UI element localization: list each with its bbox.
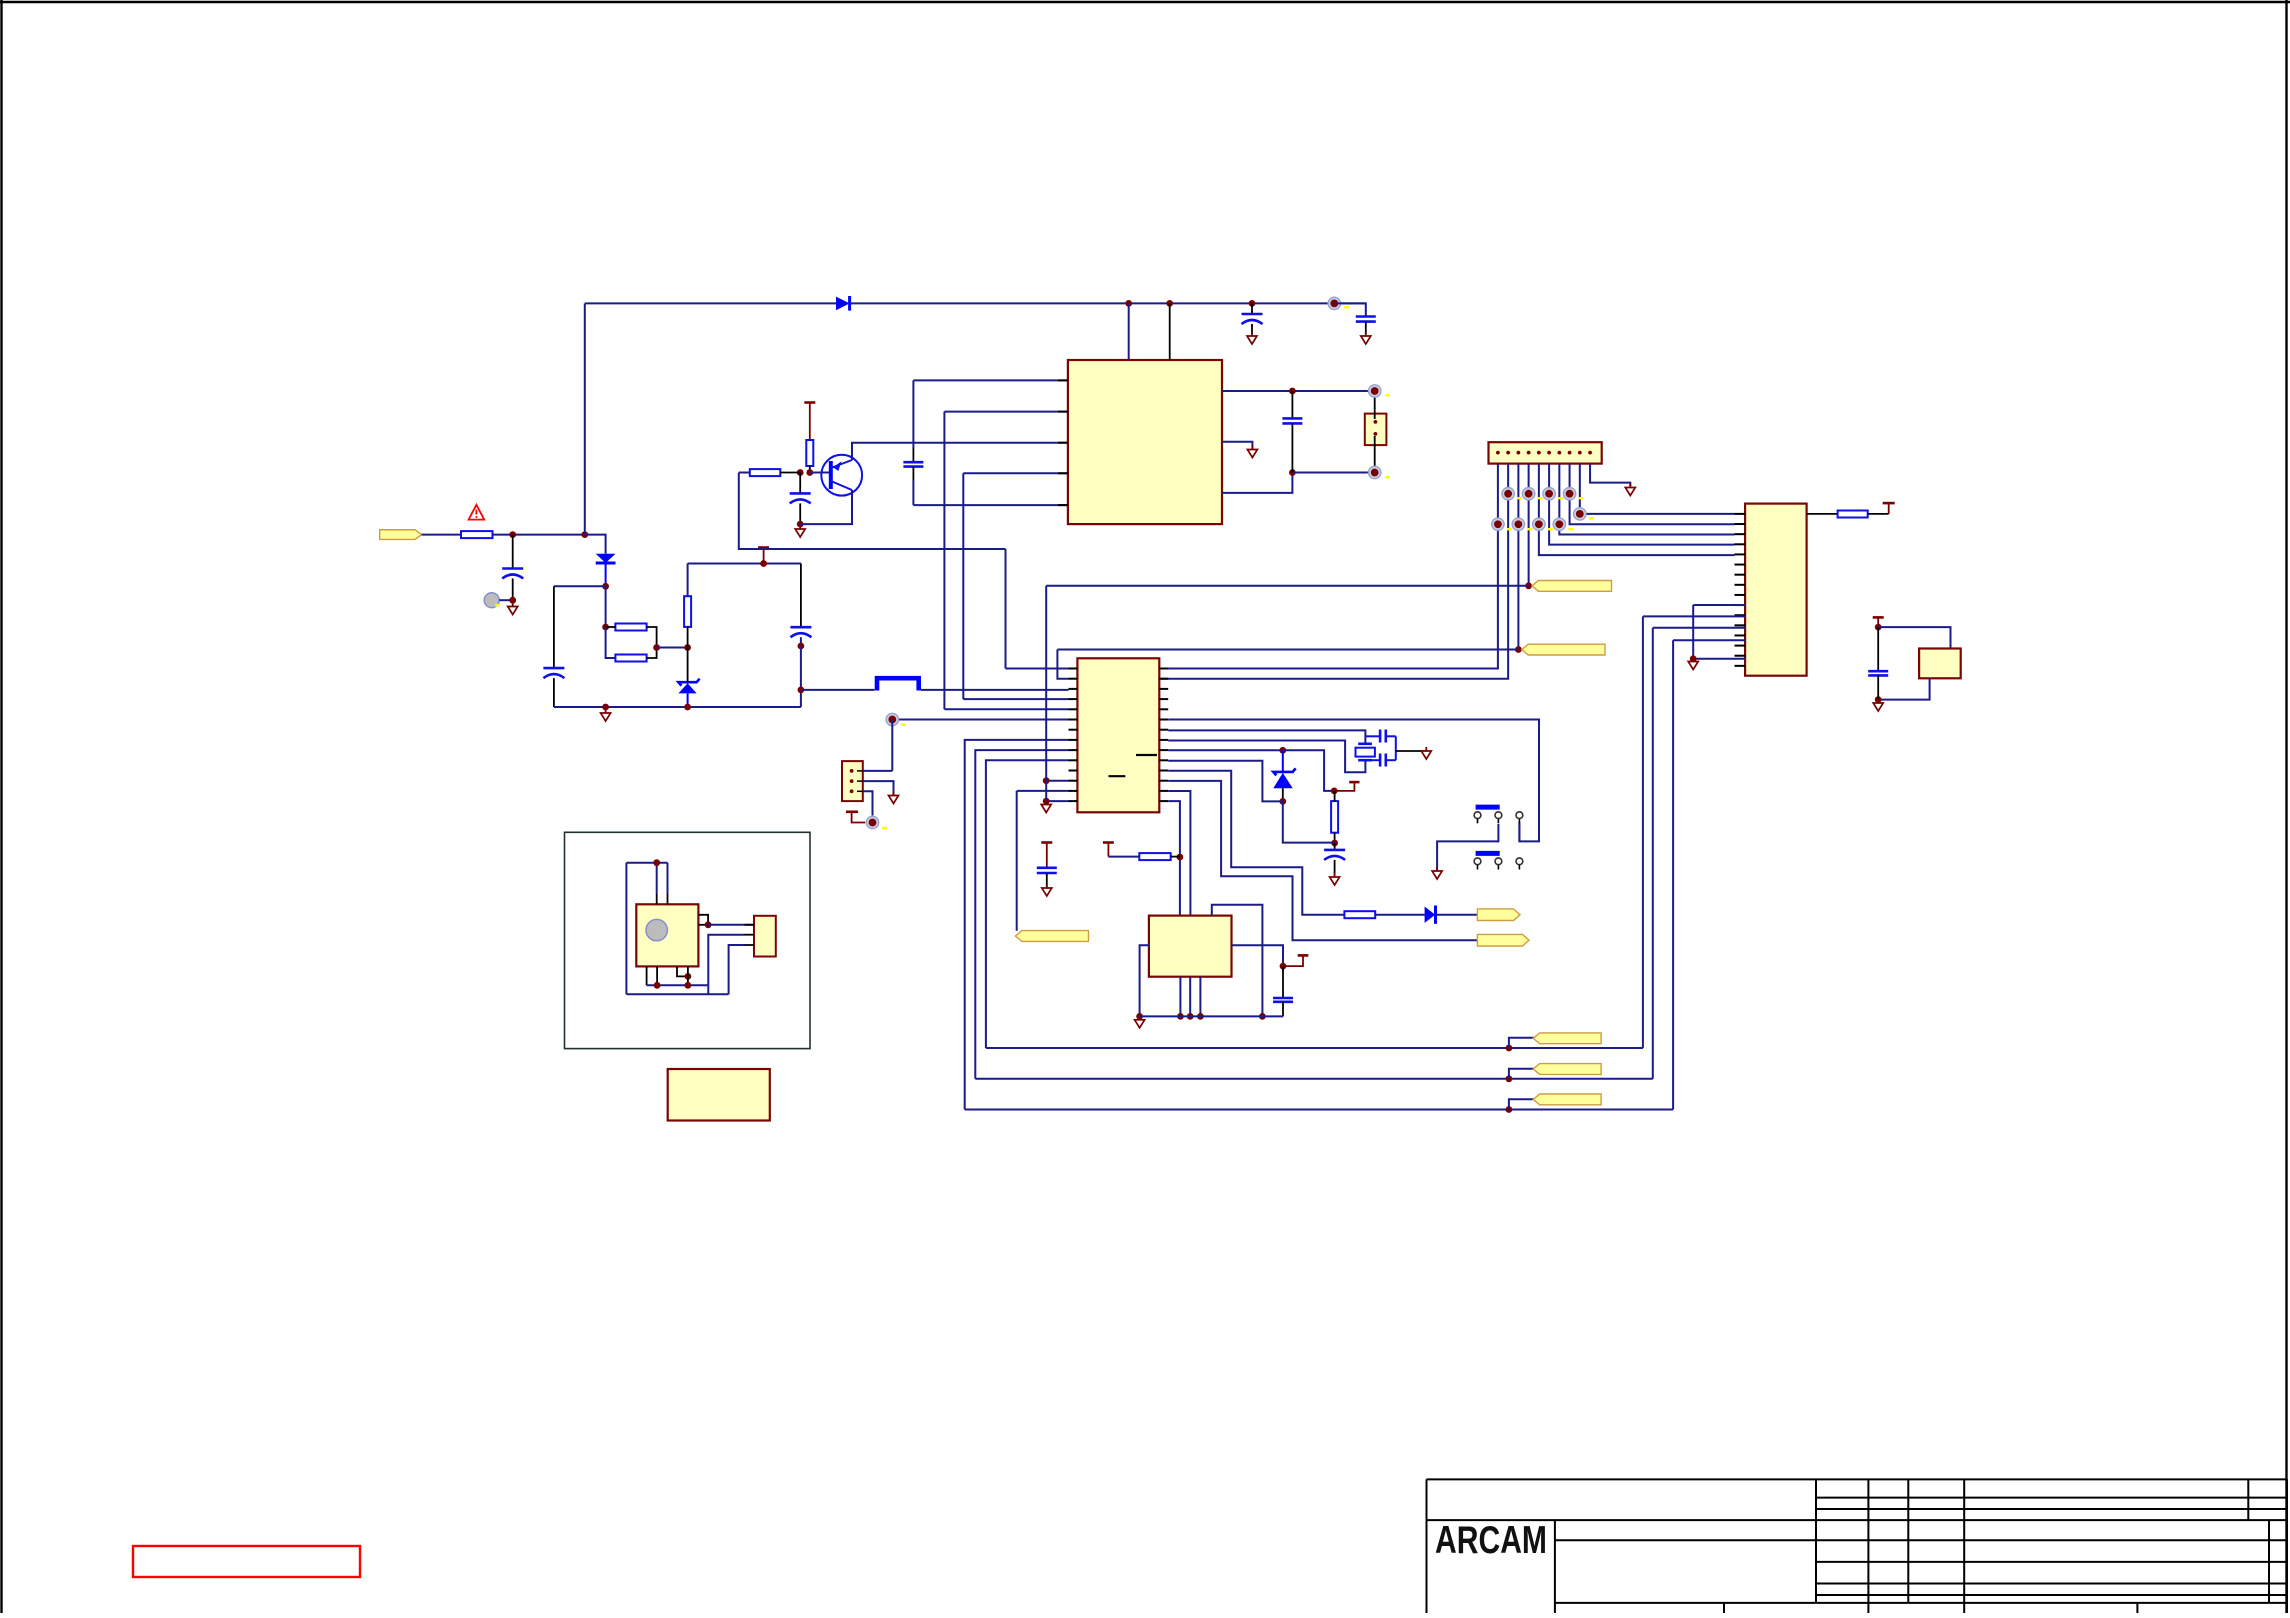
wire U1 pin5 [913,504,1068,506]
wire U1 out2 [1222,473,1292,493]
wire [585,535,606,554]
wire J2 pin1 [1159,464,1498,669]
wire [677,966,688,976]
wire [708,924,754,926]
decoupling cap C12 [1041,843,1052,868]
resistor R9 [1344,911,1375,918]
ground [1247,332,1257,344]
flag A [1477,909,1520,921]
wire [605,563,607,586]
pad row B [1492,518,1504,530]
wire [606,626,616,628]
node [797,521,804,528]
wire J2 pin3 [1517,464,1519,650]
wire [1509,1038,1540,1048]
resistor R8 [1331,801,1338,833]
wire J2 pin2 [1159,464,1508,679]
ground [1135,1016,1145,1028]
ground [1625,484,1635,496]
flag B [1477,934,1529,946]
wire [625,863,627,995]
wire [656,966,658,985]
node [509,597,516,604]
node [684,704,691,711]
wire U3R pin6 SW [1168,720,1539,842]
sensor U5 [636,904,698,966]
node [1249,300,1256,307]
resistor R5 [684,596,691,627]
IC U4 [1149,916,1232,977]
big IC U1 [1068,360,1222,524]
wire bus [1005,549,1007,669]
wire [1045,586,1047,801]
pad pin9 [1574,508,1586,520]
wire U4 bottom [1179,977,1181,1017]
node [797,469,804,476]
wire U2 right [1807,513,1838,515]
right osc power [1873,617,1884,627]
wire U4 left [1140,945,1149,1016]
net tie bridge [877,678,919,690]
ground [1421,747,1431,759]
wire [707,985,709,994]
wire [1509,1099,1540,1109]
wire U3R pin9 zener [1168,749,1283,751]
capacitor C10 [1877,627,1879,671]
wire collector [800,490,852,524]
riser flagC [1642,616,1644,1048]
node [1690,655,1697,662]
bus flagC [986,1047,1643,1049]
input net flag [380,530,422,540]
wire J2 pin9 [1580,464,1735,514]
wire U4 right [1232,945,1284,966]
resistor R10 [1139,853,1170,860]
ground [1042,884,1052,896]
zener ZD1 [678,679,699,686]
ground [1247,446,1257,458]
node [685,973,692,980]
resistor R1 [461,531,493,538]
wire [800,637,802,646]
node [1506,1045,1513,1052]
wire [687,564,689,597]
wire [493,534,585,536]
pad row A [1502,488,1514,500]
node [653,644,660,651]
resistor R6 base [750,469,781,476]
capacitor C8 [1291,391,1293,418]
wire J2 pin6 [1549,464,1734,545]
wire U3L pin2 [1057,650,1068,679]
wire [687,648,689,683]
node [602,624,609,631]
diode D1 [836,297,850,311]
wire top loop [688,563,801,565]
wire J2 pin8 [1570,464,1735,525]
wire [800,646,802,707]
wire [1868,513,1889,515]
jumper J1 [1365,414,1387,446]
node [1043,798,1050,805]
page border top [0,1,2290,3]
part box [668,1069,770,1121]
wire [646,966,648,985]
ground [508,603,518,615]
capacitor C4 [799,473,801,494]
revision box [133,1546,360,1577]
zener ZD2 [1273,768,1295,775]
wire U3L pin1 [1006,668,1069,670]
power [1883,503,1895,514]
wire U3L pin8 flagE [965,740,1069,1110]
capacitor C1 [512,535,514,569]
flag D [1533,1064,1601,1075]
riser flagE [1672,640,1674,1109]
node [1875,696,1882,703]
wire [667,863,669,894]
wire [687,693,689,707]
wire [1046,585,1528,587]
resistor R3 [615,624,646,631]
node [1166,300,1173,307]
flag left [1016,791,1018,931]
wire J2 pin5 [1539,464,1735,555]
diode D2 [596,554,616,563]
node [1177,854,1184,861]
bus2 [626,993,728,995]
capacitor C5 [1251,303,1253,314]
wire [891,720,893,771]
wire base [810,472,831,474]
wire [809,466,811,473]
node input [509,531,516,538]
wire [1878,627,1950,648]
wire [1509,1069,1540,1079]
bus flagD [975,1078,1653,1080]
wire [698,924,708,926]
node [654,982,661,989]
wire J2 pin7 [1559,464,1734,535]
wire J2 pin4 [1528,464,1530,586]
wire U3R pin12 flagB [1168,781,1477,940]
wire U3R pin8 xtalB [1168,741,1365,773]
wire [863,770,893,772]
test pad TP1 [484,593,499,608]
connector J3 [754,916,776,957]
flag net2 [1515,646,1522,653]
power [846,810,858,813]
resistor R2 [806,440,813,466]
node [798,643,805,650]
warning symbol [469,505,485,520]
node [1289,469,1296,476]
wire [606,627,616,658]
node [602,704,609,711]
wire [729,945,745,994]
wire bus [943,412,945,710]
wire U1 pin2 [944,411,1068,413]
power VCC Q1 [804,403,815,441]
power VCC [758,548,769,564]
capacitor C15 [1282,966,1284,998]
node [1289,388,1296,395]
ground [1361,332,1371,344]
wire U3R pin7 xtalA [1168,730,1365,743]
wire [1436,914,1478,916]
node [1279,747,1286,754]
node [1280,963,1287,970]
wire U3L pin9 flagD [975,750,1068,1079]
riser flagD [1652,628,1654,1079]
page border right [2285,0,2287,1613]
node [1506,1106,1513,1113]
ground [1041,801,1051,813]
capacitor C13 [1379,730,1382,743]
flag net1 [1525,582,1532,589]
node [653,859,660,866]
ground [1873,699,1883,711]
ground [1432,867,1442,879]
connector J2 [1489,442,1602,463]
node [760,560,767,567]
pad P2 [1369,385,1381,397]
switch SW2 [1476,851,1500,856]
wire U3R pin11 flagA [1168,771,1344,915]
ground [1330,873,1340,885]
wire U3L pin5 [944,708,1068,710]
wire U1 out1 [1222,390,1375,392]
wire [1396,750,1427,752]
wire [863,781,894,795]
node [1043,777,1050,784]
capacitor C11 [1334,843,1336,850]
node [1331,840,1338,847]
wire U3L pin4 [963,698,1068,700]
wire U4 top3 [1212,905,1263,1017]
power [1298,954,1309,957]
wire top rail [850,302,1366,304]
wire [626,862,667,864]
resistor R7 [1838,511,1868,518]
wire [863,791,873,815]
wire [584,303,586,534]
wire U2 low pins [1693,604,1745,606]
wire U3L pin14 [1046,800,1068,802]
overline mark [1109,775,1126,777]
node [602,583,609,590]
pad P5 [866,816,878,828]
node [685,982,692,989]
wire [422,534,461,536]
overline mark [1136,754,1157,756]
wire [1878,678,1929,699]
wire gnd loop [1692,605,1694,659]
switch SW1 [1476,805,1500,810]
wire [687,627,689,648]
power [1349,781,1359,784]
wire [921,689,1069,691]
wire U1 pin4 [963,472,1068,474]
node [1279,798,1286,805]
wire [708,935,744,986]
module outline [565,832,811,1048]
wire [1395,736,1397,760]
wire bus [962,473,964,699]
wire top rail [585,302,836,304]
node [1875,624,1882,631]
wire U1 pin1 [913,379,1068,381]
power [1103,841,1114,844]
connector J4 [842,761,863,801]
ground [601,709,611,721]
node [1331,788,1338,795]
pad P1 [1328,297,1340,309]
diode D3 [1425,907,1436,923]
node [684,644,691,651]
wire [656,863,658,894]
IC U3 [1077,658,1159,812]
IC U2 [1745,504,1807,676]
wire [1437,824,1498,871]
wire U3L pin13 [1017,790,1069,792]
node [806,469,813,476]
wire base loop [739,473,1006,550]
wire [605,586,607,627]
resistor R4 [615,655,646,662]
node [1125,300,1132,307]
wire U3R pin13 [1168,791,1190,916]
wire [800,564,802,628]
bus flagE [965,1109,1673,1111]
capacitor C2 [553,586,555,668]
wire [698,915,708,925]
node [705,921,712,928]
crystal X1 [1356,748,1375,757]
stub gnd pin [1222,442,1252,449]
svg-text:ARCAM: ARCAM [1435,1519,1547,1562]
wire U3L pin12 [1046,780,1068,782]
wire emitter [852,443,1068,460]
wire [1283,750,1334,791]
capacitor C7 [912,380,914,448]
wire U3R pin14 [1168,801,1180,916]
ground [1688,658,1698,670]
wire [780,472,800,474]
wire [1292,472,1374,474]
wire [1518,824,1520,841]
capacitor C6 [1334,303,1366,316]
wire [1128,303,1130,360]
wire [657,647,688,649]
pad P3 [1369,466,1381,478]
wire [1283,801,1335,842]
flag E [1533,1094,1601,1105]
title block [1427,1478,2288,1480]
node [1136,1013,1143,1020]
node [1506,1075,1513,1082]
node [798,687,805,694]
wire U3R pin10 [1168,761,1283,802]
ground [795,525,805,537]
osc module X2 [1919,649,1961,679]
transistor Q1 [821,455,862,496]
wire [801,689,875,691]
gnd bus [1140,1015,1283,1017]
wire [1375,914,1424,916]
page border left [0,0,2,1613]
gnd bus wire [554,706,801,708]
wire [647,627,657,658]
wire J2 pin10 [1590,464,1630,486]
ground [889,792,899,804]
capacitor C14 [1379,754,1382,767]
bus [647,984,709,986]
capacitor C3 [790,627,811,637]
wire [687,966,689,985]
wire [739,472,750,474]
node [1259,1013,1266,1020]
wire [1057,649,1518,651]
wire [499,599,513,601]
flag C [1533,1033,1601,1044]
wire U3L pin10 flagC [986,760,1069,1048]
junction node [581,531,588,538]
wire [892,719,1068,721]
wire [1169,303,1171,360]
wire [554,585,606,587]
